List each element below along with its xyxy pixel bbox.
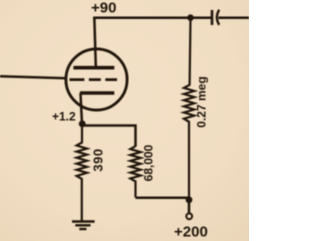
wire plate lead vertical: [94, 17, 96, 66]
capacitor C1 left plate: [211, 10, 214, 25]
svg-text:+1.2: +1.2: [52, 110, 76, 124]
svg-text:+90: +90: [91, 0, 116, 17]
wire cathode lead down: [81, 93, 83, 124]
terminal open circle +200: [186, 213, 192, 219]
svg-text:390: 390: [90, 148, 105, 171]
wire capacitor to right edge: [219, 16, 250, 19]
svg-text:0.27 meg: 0.27 meg: [195, 76, 209, 127]
wire junction to terminal: [188, 200, 191, 213]
ground symbol: [72, 222, 95, 230]
capacitor C1 right curved plate: [217, 10, 219, 25]
tube envelope V1: [66, 49, 127, 110]
wire top rail: [95, 16, 212, 19]
svg-text:+200: +200: [174, 224, 208, 241]
node output junction dot: [186, 196, 193, 203]
wire bottom from 68k to output node: [136, 197, 190, 200]
resistor R3 0.27meg zigzag with leads: [184, 18, 194, 198]
resistor R2 68000 zigzag: [130, 146, 140, 197]
tube plate bar: [73, 66, 114, 70]
resistor R1 390 zigzag: [77, 124, 87, 221]
tube cathode bar: [80, 91, 114, 95]
node cathode junction dot: [79, 120, 86, 127]
wire grid lead to left edge: [0, 76, 66, 78]
tube grid dashed: [70, 78, 118, 81]
svg-text:68,000: 68,000: [142, 144, 156, 181]
node junction dot top (B+ rail to plate resistor): [187, 14, 194, 21]
wire cathode junction to 68k branch: [82, 126, 135, 147]
